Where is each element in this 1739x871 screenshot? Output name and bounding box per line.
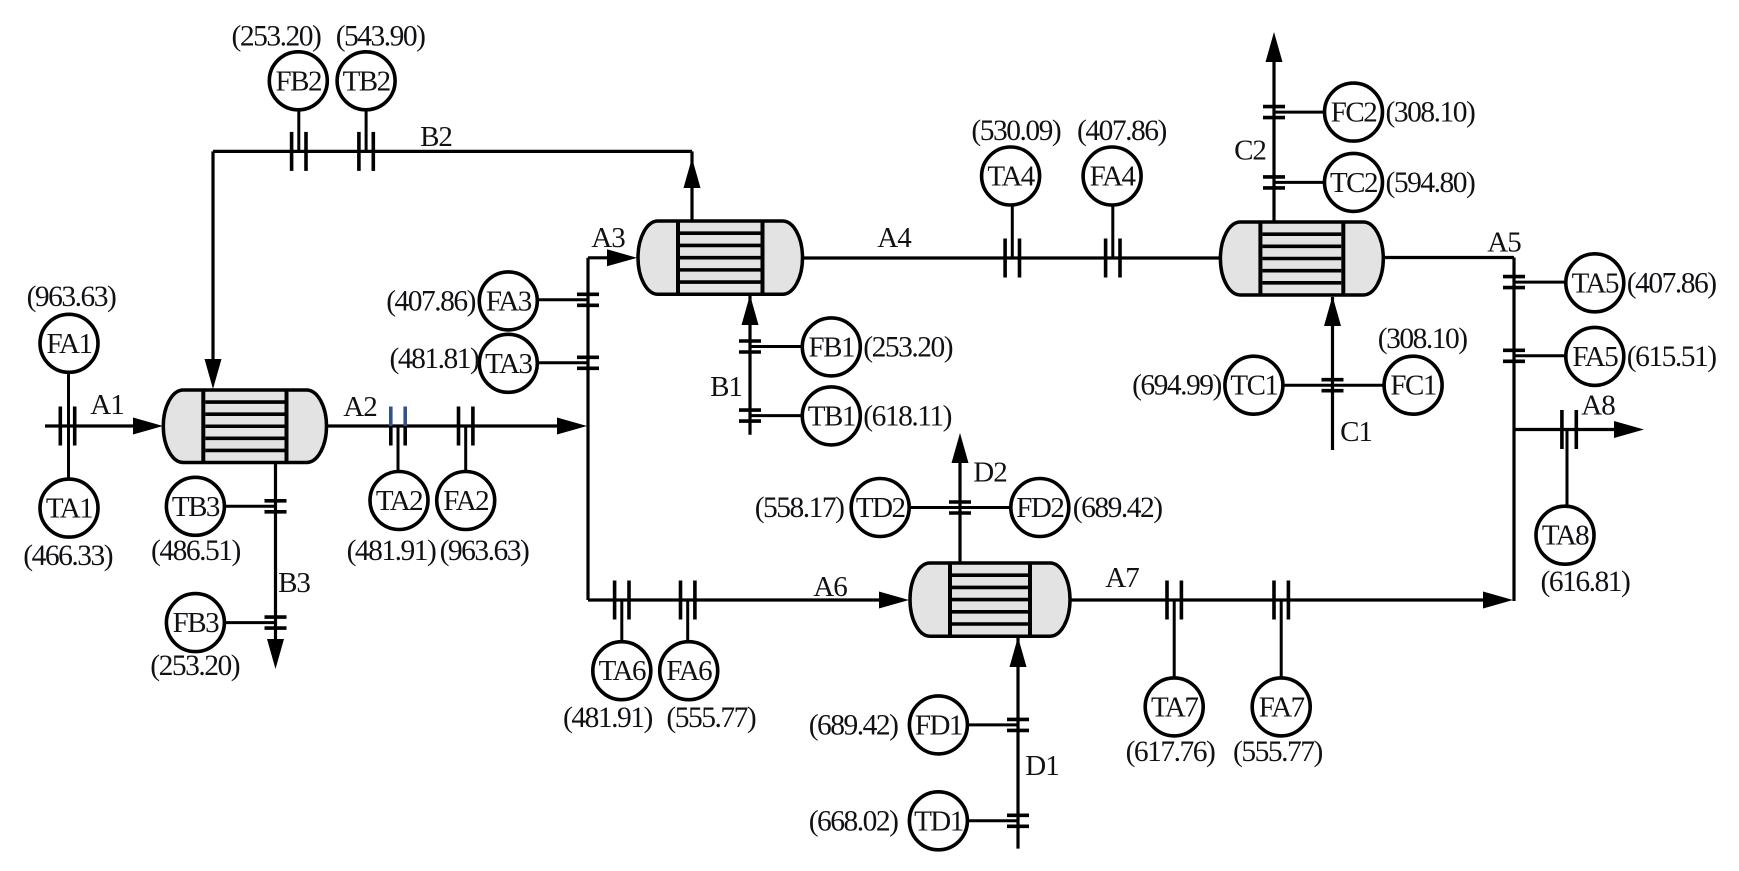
wire B2 riser from E2 — [684, 151, 701, 221]
wire A3 — [588, 249, 637, 266]
lead TD2 — [909, 506, 960, 509]
tap FA7 on A7 — [1274, 581, 1288, 620]
wire A5 — [1383, 258, 1514, 602]
svg-text:A3: A3 — [591, 222, 625, 254]
stream label B3 — [278, 567, 310, 599]
stream label A3 — [591, 222, 625, 254]
instrument TD1 — [909, 792, 967, 850]
tap TA3 on riser — [577, 357, 599, 368]
instrument FA1 — [40, 314, 98, 372]
lead TD1 — [967, 819, 1018, 822]
value (694.99) of TC1 — [1132, 370, 1221, 402]
stream label B2 — [420, 121, 452, 153]
tap TA6 on A6 — [615, 581, 629, 620]
instrument FC1 — [1384, 356, 1442, 414]
tap FB2 on B2 — [292, 132, 306, 171]
tap TD2/FD2 on D2 — [949, 502, 971, 513]
svg-text:(555.77): (555.77) — [1233, 736, 1322, 768]
instrument TA6 — [593, 642, 651, 700]
tap TC1/FC1 on C1 — [1322, 380, 1344, 391]
svg-text:TA5: TA5 — [1572, 267, 1619, 299]
svg-text:FA4: FA4 — [1090, 161, 1137, 193]
lead TB2 — [365, 111, 368, 152]
svg-text:TA1: TA1 — [46, 493, 92, 525]
wire D2 out of E4 — [952, 433, 969, 563]
svg-text:FA2: FA2 — [443, 485, 488, 517]
lead FA3 — [537, 298, 588, 301]
svg-text:TC2: TC2 — [1330, 167, 1377, 199]
tap FA6 on A6 — [681, 581, 695, 620]
value (555.77) of FA6 — [666, 702, 755, 734]
svg-text:(963.63): (963.63) — [440, 535, 529, 567]
lead TA6 — [620, 600, 623, 642]
instrument FA6 — [660, 642, 718, 700]
instrument FD1 — [909, 696, 967, 754]
svg-text:A6: A6 — [813, 571, 847, 603]
svg-text:(555.77): (555.77) — [666, 702, 755, 734]
lead FA7 — [1280, 600, 1283, 678]
tap FA1/TA1 on A1 — [60, 407, 74, 446]
tap FB1 on B1 — [739, 341, 761, 352]
stream label D2 — [973, 457, 1006, 489]
svg-text:(616.81): (616.81) — [1541, 566, 1630, 598]
wire A1 inlet — [45, 418, 163, 435]
wire A4 — [803, 256, 1221, 259]
wire B1 into E2 — [742, 295, 759, 435]
svg-text:(530.09): (530.09) — [971, 115, 1060, 147]
wire B2 horizontal — [213, 150, 692, 153]
svg-text:C2: C2 — [1234, 135, 1266, 167]
lead FA6 — [686, 600, 689, 642]
wire B2 drop into E1 — [205, 151, 222, 389]
value (618.11) of TB1 — [863, 400, 951, 432]
lead FA2 — [464, 426, 467, 471]
heat exchanger E2 (A3/A4 with B1/B2) — [638, 221, 803, 294]
value (253.20) of FB2 — [232, 21, 321, 53]
svg-text:A2: A2 — [343, 391, 376, 423]
value (481.91) of TA2 — [347, 535, 436, 567]
svg-text:TD1: TD1 — [914, 805, 963, 837]
svg-text:(481.81): (481.81) — [390, 343, 479, 375]
instrument TA7 — [1145, 678, 1203, 736]
instrument TA2 — [370, 472, 428, 530]
lead TA4 — [1011, 205, 1014, 258]
value (466.33) of TA1 — [23, 540, 112, 572]
tap FC2 on C2 — [1263, 107, 1285, 118]
instrument FC2 — [1325, 83, 1383, 141]
instrument TB2 — [337, 52, 395, 110]
svg-text:FA1: FA1 — [47, 328, 92, 360]
value (481.91) of TA6 — [563, 702, 652, 734]
lead TB3 — [224, 505, 275, 508]
tap FA3 on riser — [577, 294, 599, 305]
lead FC1 — [1333, 384, 1385, 387]
lead FA5 — [1514, 354, 1566, 357]
value (558.17) of TD2 — [755, 492, 844, 524]
stream label A5 — [1487, 227, 1521, 259]
lead TA8 — [1566, 430, 1569, 507]
tap TB3 on B3 — [265, 501, 287, 512]
svg-text:FC2: FC2 — [1331, 97, 1376, 129]
value (963.63) of FA2 — [440, 535, 529, 567]
tap TD1 on D1 — [1007, 815, 1029, 826]
svg-text:FD2: FD2 — [1016, 492, 1063, 524]
svg-text:(543.90): (543.90) — [336, 21, 425, 53]
instrument FB2 — [269, 52, 327, 110]
value (407.86) of FA3 — [386, 285, 475, 317]
lead FB3 — [224, 621, 275, 624]
svg-text:(308.10): (308.10) — [1386, 97, 1475, 129]
svg-text:(253.20): (253.20) — [232, 21, 321, 53]
tap TA2 on A2 (blue ticks) — [391, 407, 405, 446]
value (615.51) of FA5 — [1627, 341, 1716, 373]
wire A7 — [1070, 592, 1513, 609]
tap FA2 on A2 — [459, 407, 473, 446]
svg-text:A5: A5 — [1487, 227, 1521, 259]
instrument FA7 — [1252, 678, 1310, 736]
lead FC2 — [1274, 111, 1325, 114]
instrument FA4 — [1083, 147, 1141, 205]
svg-text:(253.20): (253.20) — [863, 331, 952, 363]
svg-text:(407.86): (407.86) — [1077, 115, 1166, 147]
stream label A2 — [343, 391, 376, 423]
svg-text:(407.86): (407.86) — [386, 285, 475, 317]
svg-text:(481.91): (481.91) — [347, 535, 436, 567]
wire C2 out of E3 — [1266, 32, 1283, 222]
tap FB3 on B3 — [265, 617, 287, 628]
svg-text:B3: B3 — [278, 567, 310, 599]
instrument TA3 — [479, 334, 537, 392]
value (689.42) of FD1 — [809, 709, 898, 741]
instrument TA4 — [982, 147, 1040, 205]
tap TA8 on A8 — [1562, 410, 1576, 449]
value (253.20) of FB3 — [150, 650, 239, 682]
stream label A1 — [90, 389, 123, 421]
tap TB1 on B1 — [739, 410, 761, 421]
heat exchanger E4 (A6/A7 with D1/D2) — [910, 563, 1070, 636]
tap TA7 on A7 — [1167, 581, 1181, 620]
wire A6 — [588, 592, 909, 609]
value (407.86) of TA5 — [1627, 267, 1716, 299]
svg-text:FA5: FA5 — [1572, 341, 1618, 373]
svg-text:FA6: FA6 — [666, 655, 712, 687]
stream label B1 — [710, 371, 742, 403]
stream label A4 — [877, 222, 912, 254]
instrument TA1 — [40, 479, 98, 537]
svg-text:TC1: TC1 — [1230, 370, 1277, 402]
stream label C1 — [1340, 416, 1372, 448]
svg-text:(689.42): (689.42) — [1073, 492, 1162, 524]
value (308.10) of FC1 — [1378, 323, 1467, 355]
wire C1 into E3 — [1324, 296, 1341, 450]
instrument TB1 — [802, 387, 860, 445]
svg-text:A4: A4 — [877, 222, 912, 254]
svg-text:TD2: TD2 — [856, 492, 905, 524]
wire A2 — [327, 418, 588, 435]
svg-text:TA7: TA7 — [1151, 691, 1198, 723]
tap TA4 on A4 — [1005, 239, 1019, 278]
svg-text:(253.20): (253.20) — [150, 650, 239, 682]
heat exchanger E1 (A1/A2 with B2/B3) — [163, 390, 326, 463]
value (963.63) of FA1 — [27, 281, 116, 313]
svg-text:(963.63): (963.63) — [27, 281, 116, 313]
svg-text:B1: B1 — [710, 371, 742, 403]
svg-text:(618.11): (618.11) — [863, 400, 951, 432]
wire B3 out of E1 — [267, 463, 284, 670]
svg-text:D1: D1 — [1025, 750, 1058, 782]
lead FB2 — [297, 111, 300, 152]
svg-text:FB1: FB1 — [809, 331, 854, 363]
svg-text:FC1: FC1 — [1390, 370, 1435, 402]
value (407.86) of FA4 — [1077, 115, 1166, 147]
wire D1 into E4 — [1010, 637, 1027, 849]
svg-text:TB3: TB3 — [172, 491, 220, 523]
lead TA5 — [1514, 281, 1566, 284]
value (555.77) of FA7 — [1233, 736, 1322, 768]
instrument TD2 — [851, 479, 909, 537]
svg-text:(617.76): (617.76) — [1126, 736, 1215, 768]
svg-text:TA8: TA8 — [1542, 520, 1589, 552]
svg-text:B2: B2 — [420, 121, 452, 153]
instrument TC1 — [1225, 356, 1283, 414]
value (616.81) of TA8 — [1541, 566, 1630, 598]
svg-text:FB3: FB3 — [173, 607, 219, 639]
stream label A6 — [813, 571, 847, 603]
lead TA3 — [537, 361, 588, 364]
instrument FA2 — [437, 472, 495, 530]
tap FA5 on A5 — [1503, 350, 1525, 361]
instrument TC2 — [1325, 153, 1383, 211]
svg-text:TA4: TA4 — [987, 161, 1035, 193]
svg-text:(694.99): (694.99) — [1132, 370, 1221, 402]
stream label A7 — [1105, 562, 1139, 594]
svg-text:FA7: FA7 — [1259, 691, 1305, 723]
lead FD2 — [960, 506, 1011, 509]
lead TA2 — [397, 426, 400, 472]
svg-text:A1: A1 — [90, 389, 123, 421]
value (689.42) of FD2 — [1073, 492, 1162, 524]
svg-text:TA3: TA3 — [485, 348, 532, 380]
value (253.20) of FB1 — [863, 331, 952, 363]
svg-text:(466.33): (466.33) — [23, 540, 112, 572]
svg-text:C1: C1 — [1340, 416, 1372, 448]
tap TB2 on B2 — [359, 132, 373, 171]
svg-text:TB1: TB1 — [808, 400, 855, 432]
instrument FB3 — [166, 594, 224, 652]
value (308.10) of FC2 — [1386, 97, 1475, 129]
value (617.76) of TA7 — [1126, 736, 1215, 768]
svg-text:(615.51): (615.51) — [1627, 341, 1716, 373]
svg-text:A8: A8 — [1581, 390, 1615, 422]
lead TC2 — [1274, 181, 1325, 184]
instrument TB3 — [166, 477, 224, 535]
svg-text:A7: A7 — [1105, 562, 1139, 594]
instrument FA5 — [1566, 327, 1624, 385]
instrument TA8 — [1536, 506, 1594, 564]
instrument FA3 — [479, 272, 537, 330]
svg-text:TA6: TA6 — [599, 655, 646, 687]
svg-text:TA2: TA2 — [376, 485, 422, 517]
tap FA4 on A4 — [1106, 239, 1120, 278]
lead FA4 — [1111, 205, 1114, 258]
svg-text:TB2: TB2 — [343, 65, 390, 97]
svg-text:(594.80): (594.80) — [1386, 167, 1475, 199]
wire A8 outlet — [1514, 421, 1644, 438]
lead TC1 — [1283, 384, 1333, 387]
lead FB1 — [750, 345, 802, 348]
lead FA1-TA1 — [67, 372, 70, 479]
wire A2-A3-A6 riser — [586, 258, 589, 600]
value (668.02) of TD1 — [809, 805, 898, 837]
svg-text:(407.86): (407.86) — [1627, 267, 1716, 299]
svg-text:(668.02): (668.02) — [809, 805, 898, 837]
svg-text:FD1: FD1 — [915, 709, 962, 741]
svg-text:(558.17): (558.17) — [755, 492, 844, 524]
tap FD1 on D1 — [1007, 719, 1029, 730]
svg-text:(308.10): (308.10) — [1378, 323, 1467, 355]
svg-text:FA3: FA3 — [486, 285, 532, 317]
value (530.09) of TA4 — [971, 115, 1060, 147]
tap TA5 on A5 — [1503, 277, 1525, 288]
svg-text:(481.91): (481.91) — [563, 702, 652, 734]
svg-text:FB2: FB2 — [276, 65, 321, 97]
stream label A8 — [1581, 390, 1615, 422]
value (543.90) of TB2 — [336, 21, 425, 53]
value (594.80) of TC2 — [1386, 167, 1475, 199]
svg-text:(486.51): (486.51) — [151, 535, 240, 567]
value (481.81) of TA3 — [390, 343, 479, 375]
stream label C2 — [1234, 135, 1266, 167]
lead TB1 — [750, 414, 802, 417]
instrument TA5 — [1566, 254, 1624, 312]
heat exchanger E3 (A4/A5 with C1/C2) — [1220, 222, 1383, 295]
lead TA7 — [1173, 600, 1176, 678]
lead FD1 — [967, 723, 1018, 726]
tap TC2 on C2 — [1263, 177, 1285, 188]
svg-text:D2: D2 — [973, 457, 1006, 489]
instrument FB1 — [802, 318, 860, 376]
value (486.51) of TB3 — [151, 535, 240, 567]
instrument FD2 — [1011, 479, 1069, 537]
stream label D1 — [1025, 750, 1058, 782]
svg-text:(689.42): (689.42) — [809, 709, 898, 741]
